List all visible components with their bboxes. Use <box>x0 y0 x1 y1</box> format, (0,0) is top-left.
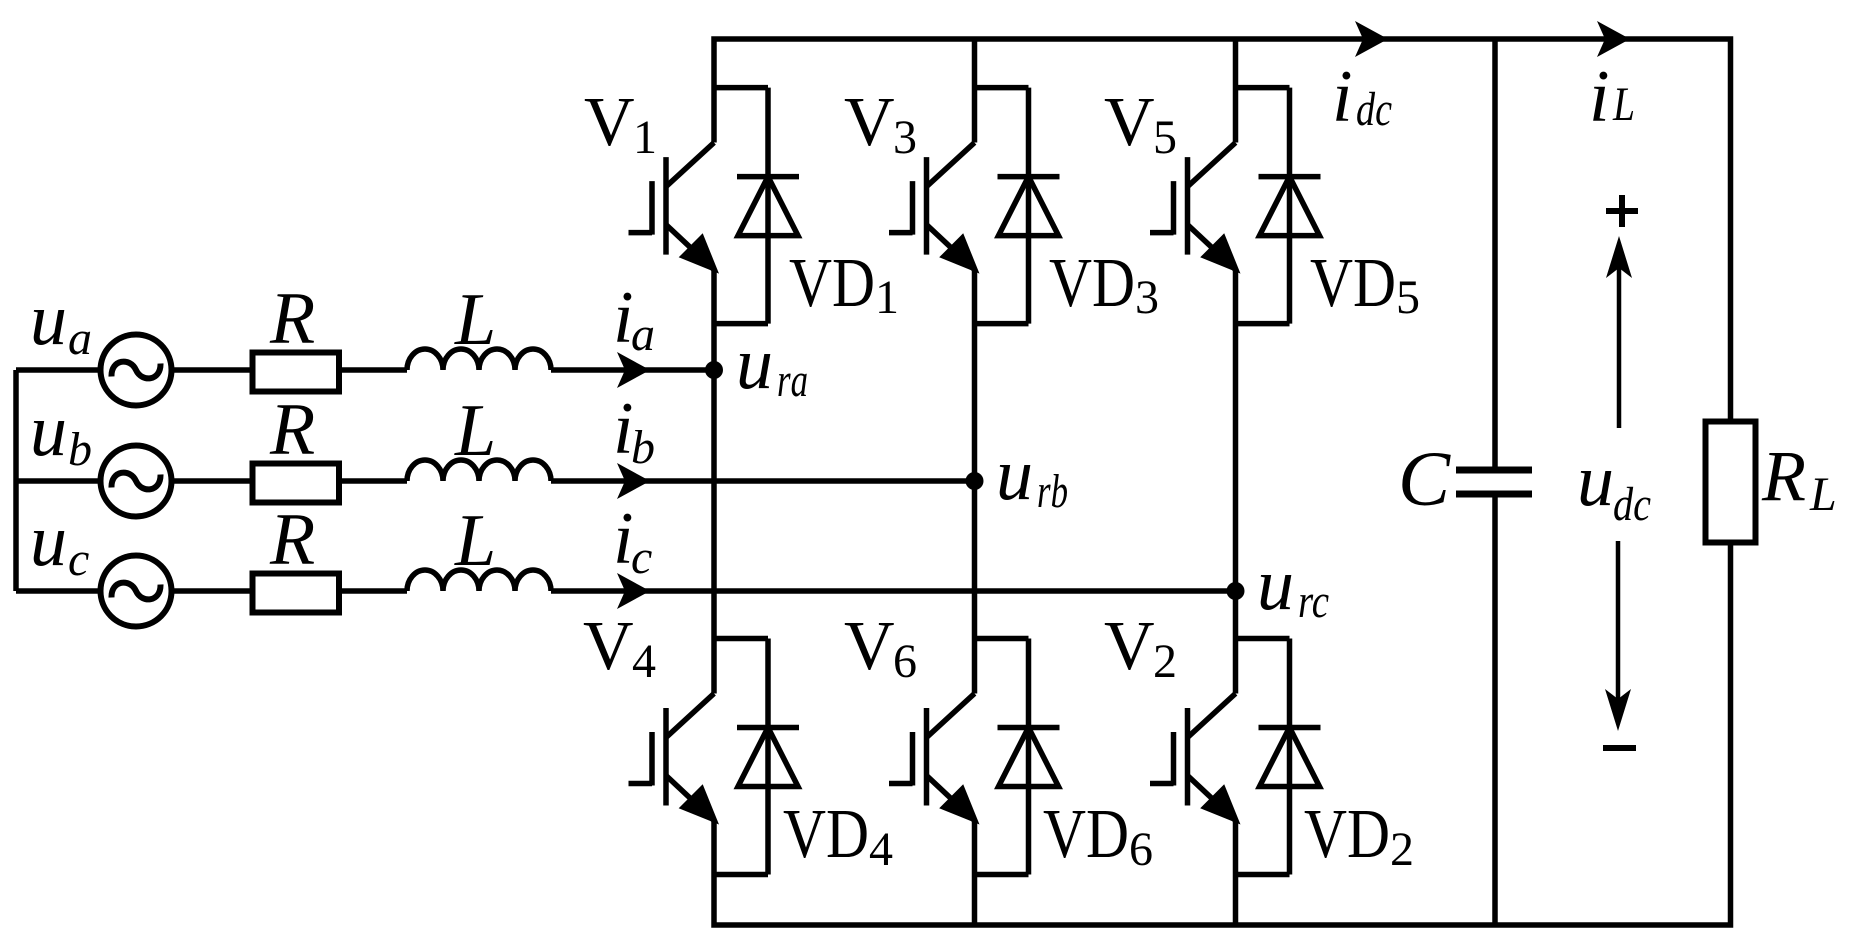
svg-text:VD: VD <box>1304 796 1390 873</box>
svg-text:c: c <box>631 531 652 584</box>
svg-text:rb: rb <box>1037 465 1068 518</box>
svg-text:u: u <box>30 390 67 472</box>
svg-text:6: 6 <box>893 635 917 688</box>
svg-text:3: 3 <box>893 111 917 164</box>
svg-text:u: u <box>736 323 773 405</box>
svg-text:VD: VD <box>1043 796 1129 873</box>
svg-text:3: 3 <box>1135 271 1159 324</box>
svg-text:L: L <box>454 279 496 361</box>
svg-text:R: R <box>1761 436 1806 516</box>
svg-text:5: 5 <box>1396 271 1420 324</box>
svg-text:c: c <box>68 533 89 586</box>
svg-text:rc: rc <box>1298 575 1329 628</box>
svg-text:u: u <box>30 500 67 582</box>
svg-text:b: b <box>631 421 655 474</box>
svg-text:u: u <box>1257 544 1294 626</box>
svg-text:1: 1 <box>633 111 657 164</box>
svg-text:V: V <box>584 84 635 161</box>
svg-text:V: V <box>1104 84 1155 161</box>
svg-text:a: a <box>631 308 655 361</box>
svg-text:6: 6 <box>1129 823 1153 876</box>
svg-text:u: u <box>1577 440 1614 522</box>
svg-text:i: i <box>1332 56 1353 138</box>
svg-text:b: b <box>68 423 92 476</box>
svg-text:u: u <box>30 279 67 361</box>
svg-text:u: u <box>996 434 1033 516</box>
svg-text:2: 2 <box>1153 635 1177 688</box>
svg-text:V: V <box>844 608 895 685</box>
svg-text:a: a <box>68 312 92 365</box>
svg-text:ra: ra <box>777 354 808 407</box>
svg-text:4: 4 <box>632 635 656 688</box>
svg-text:R: R <box>269 389 315 471</box>
svg-text:i: i <box>1589 56 1610 138</box>
svg-text:1: 1 <box>875 271 899 324</box>
svg-text:dc: dc <box>1356 83 1392 136</box>
svg-text:VD: VD <box>1310 245 1396 322</box>
svg-text:L: L <box>1809 468 1837 521</box>
svg-text:VD: VD <box>1049 245 1135 322</box>
svg-text:5: 5 <box>1153 111 1177 164</box>
svg-text:R: R <box>269 278 315 360</box>
svg-text:2: 2 <box>1390 823 1414 876</box>
svg-text:L: L <box>1612 78 1635 131</box>
svg-text:dc: dc <box>1613 478 1651 531</box>
svg-text:V: V <box>1104 608 1155 685</box>
svg-text:L: L <box>454 390 496 472</box>
svg-text:4: 4 <box>869 823 893 876</box>
svg-text:L: L <box>454 500 496 582</box>
svg-text:R: R <box>269 499 315 581</box>
svg-text:C: C <box>1398 435 1451 522</box>
svg-text:VD: VD <box>783 796 869 873</box>
svg-text:V: V <box>583 608 634 685</box>
svg-text:V: V <box>844 84 895 161</box>
svg-text:VD: VD <box>789 245 875 322</box>
